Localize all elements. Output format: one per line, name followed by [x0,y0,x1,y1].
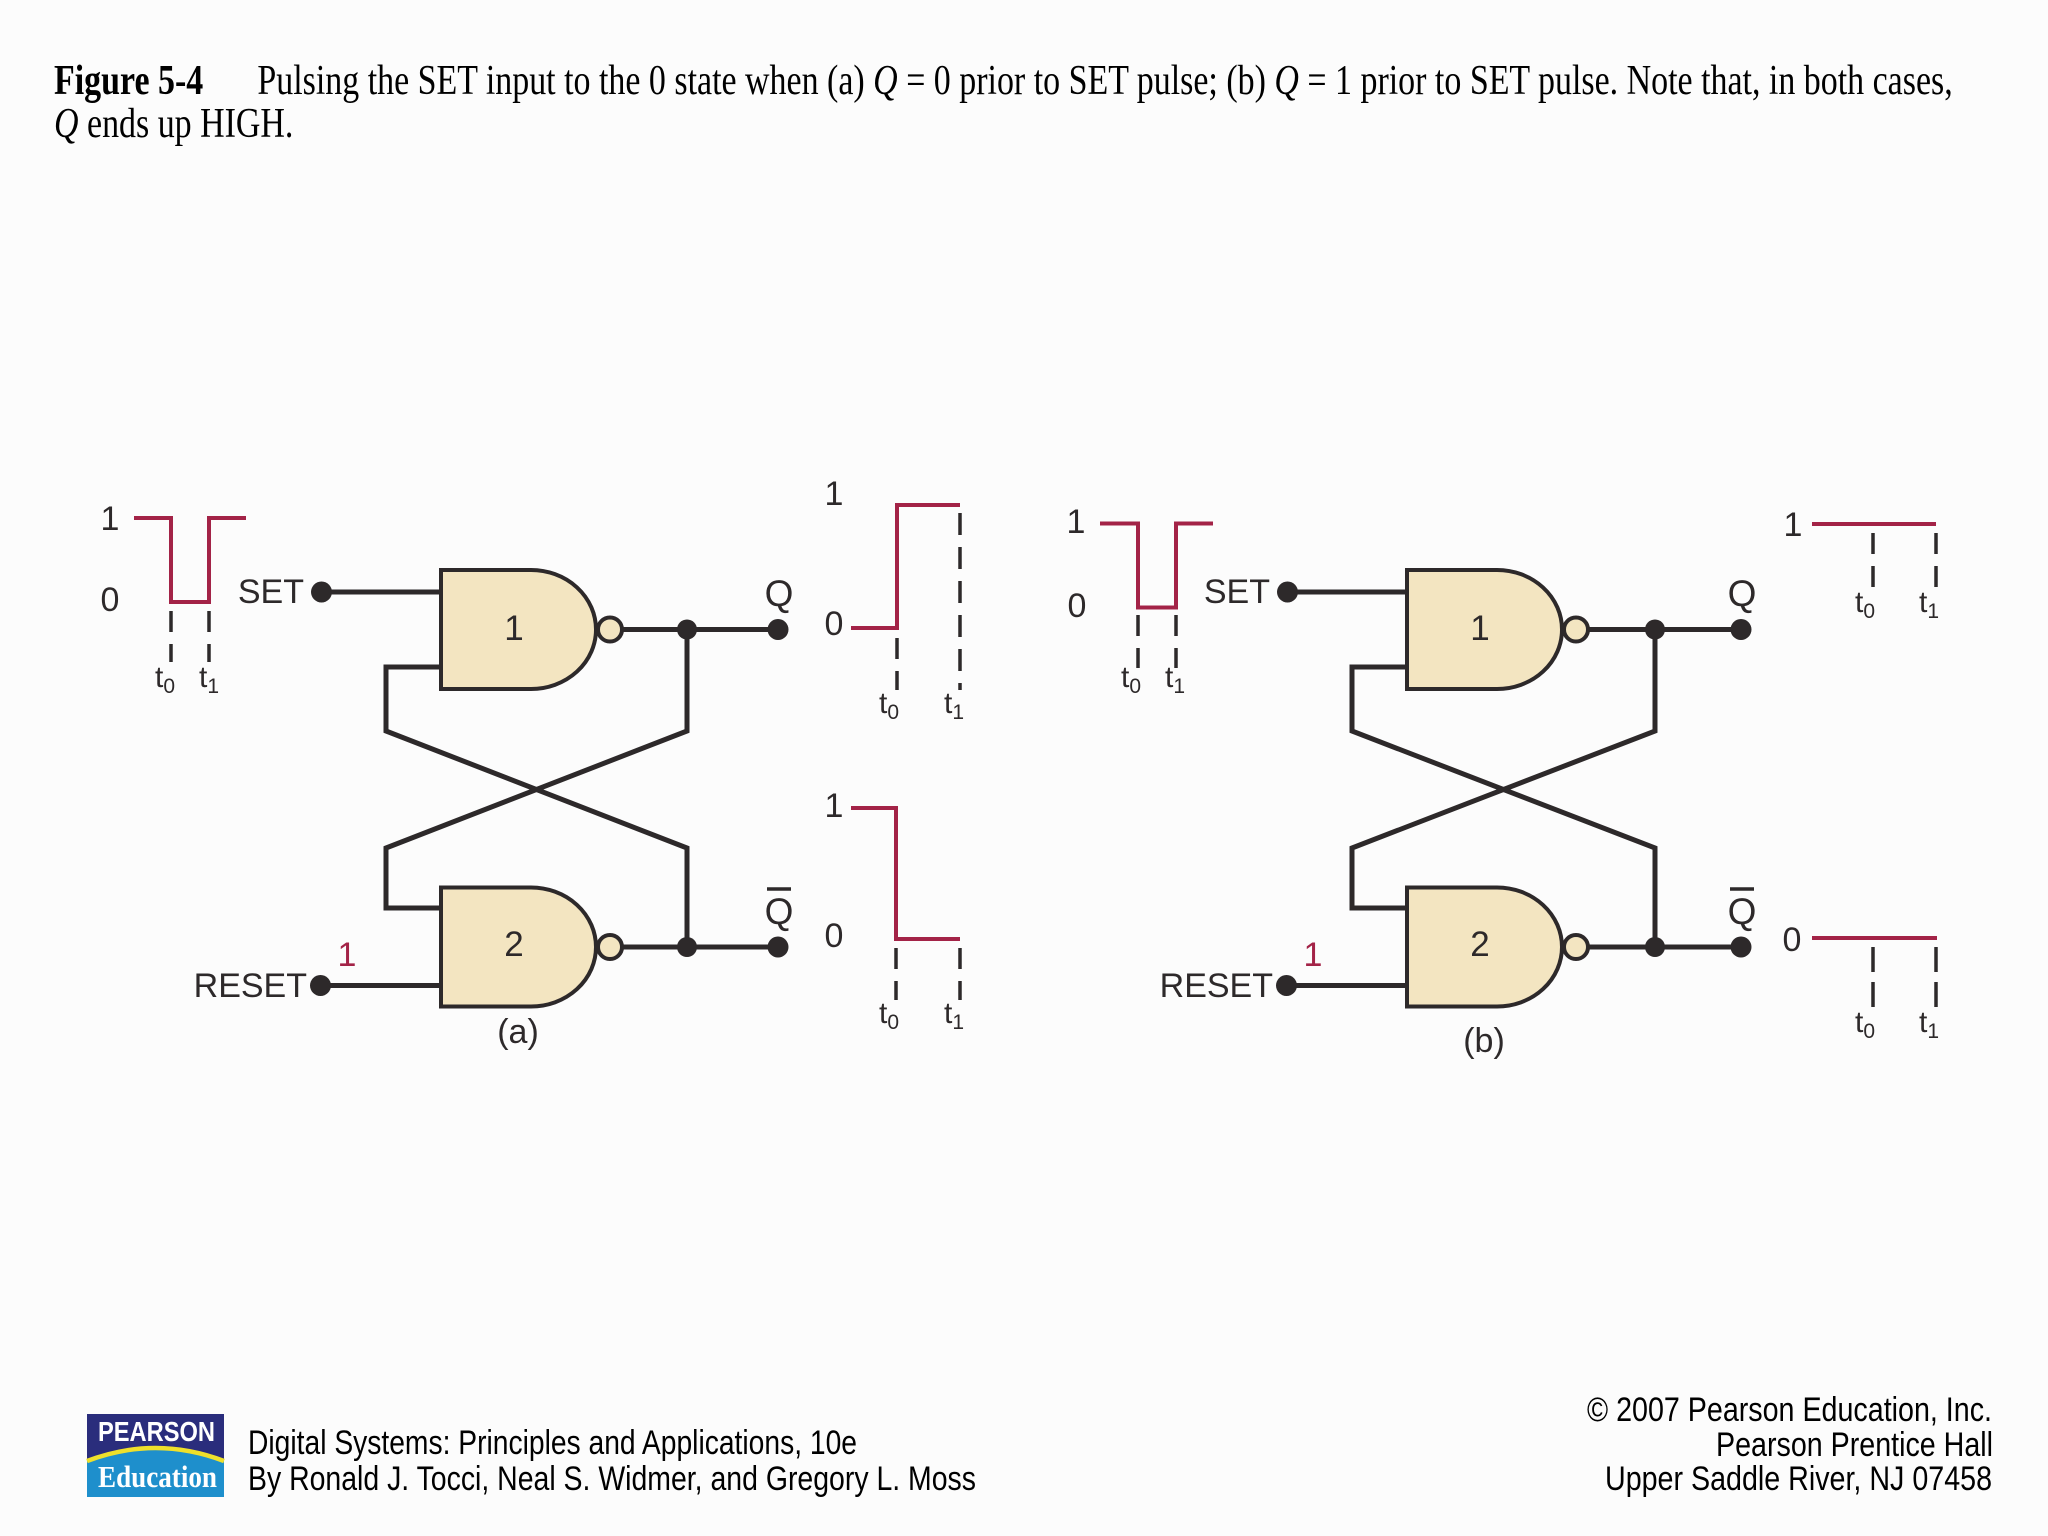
svg-text:0: 0 [1068,587,1087,625]
Qbar terminal dot (b) [1731,937,1752,958]
SET terminal (a) [238,573,441,611]
svg-text:SET: SET [238,573,304,611]
svg-text:t1: t1 [199,661,219,698]
svg-text:1: 1 [825,787,844,825]
Q terminal dot (a) [768,619,789,640]
svg-text:Q: Q [1728,573,1757,614]
svg-text:Q: Q [765,573,794,614]
svg-text:t1: t1 [944,997,964,1034]
svg-text:RESET: RESET [1160,967,1273,1005]
svg-text:2: 2 [1470,925,1489,964]
wire bubble to Qbar (b) [1588,945,1741,950]
svg-text:2: 2 [504,925,523,964]
svg-text:1: 1 [504,609,523,648]
svg-text:t0: t0 [1855,1006,1875,1043]
svg-text:PEARSON: PEARSON [98,1416,215,1447]
svg-text:(b): (b) [1463,1022,1505,1060]
cross-coupling wire from Q node to gate 2 input (b) [1352,630,1655,909]
svg-text:Upper Saddle River, NJ 07458: Upper Saddle River, NJ 07458 [1605,1460,1992,1498]
svg-text:By Ronald J. Tocci, Neal S. Wi: By Ronald J. Tocci, Neal S. Widmer, and … [248,1460,976,1498]
svg-text:1: 1 [825,475,844,513]
Q terminal dot (b) [1731,619,1752,640]
svg-text:1: 1 [1304,936,1323,974]
output bubble gate 2 (a) [598,935,622,959]
svg-text:Education: Education [98,1459,217,1494]
svg-text:Pearson Prentice Hall: Pearson Prentice Hall [1716,1426,1993,1464]
svg-text:0: 0 [825,605,844,643]
svg-text:t1: t1 [1919,586,1939,623]
svg-text:t1: t1 [1919,1006,1939,1043]
svg-text:1: 1 [1784,506,1803,544]
cross-coupling wire from gate 1 input to Qbar node (a) [386,667,687,947]
svg-text:1: 1 [1067,503,1086,541]
RESET terminal (b) [1160,936,1407,1005]
svg-text:SET: SET [1204,573,1270,611]
svg-text:Q: Q [1728,891,1757,932]
output bubble gate 1 (a) [598,618,622,642]
svg-text:RESET: RESET [194,967,307,1005]
cross-coupling wire from Q node to gate 2 input (a) [386,630,687,909]
svg-text:0: 0 [825,917,844,955]
junction node Q (b) [1645,620,1665,640]
output bubble gate 1 (b) [1564,618,1588,642]
SET terminal (b) [1204,573,1407,611]
wire bubble to Q (b) [1588,627,1741,632]
svg-text:t1: t1 [944,687,964,724]
figure caption [54,60,2048,145]
SET input waveform (a) [101,500,246,698]
svg-text:t0: t0 [1855,586,1875,623]
svg-text:1: 1 [101,500,120,538]
NAND gate 1 (b) [1407,570,1562,689]
output bubble gate 2 (b) [1564,935,1588,959]
svg-text:(a): (a) [497,1013,539,1051]
svg-text:1: 1 [1470,609,1489,648]
NAND gate 2 (a) [441,888,596,1007]
svg-text:t0: t0 [155,661,175,698]
svg-text:Q: Q [765,891,794,932]
Qbar output waveform (a) [825,787,964,1034]
wire bubble to Qbar (a) [622,945,778,950]
junction node Qbar (b) [1645,937,1665,957]
svg-text:0: 0 [1783,921,1802,959]
svg-text:1: 1 [338,936,357,974]
svg-text:Digital Systems: Principles an: Digital Systems: Principles and Applicat… [248,1424,857,1462]
cross-coupling wire from gate 1 input to Qbar node (b) [1352,667,1655,947]
Qbar terminal dot (a) [768,937,789,958]
svg-text:t0: t0 [879,997,899,1034]
SET input waveform (b) [1067,503,1213,698]
NAND gate 1 (a) [441,570,596,689]
svg-text:t0: t0 [879,687,899,724]
RESET terminal (a) [194,936,441,1005]
svg-text:© 2007 Pearson Education, Inc.: © 2007 Pearson Education, Inc. [1587,1391,1992,1429]
svg-text:0: 0 [101,581,120,619]
junction node Qbar (a) [677,937,697,957]
wire bubble to Q (a) [622,627,778,632]
NAND gate 2 (b) [1407,888,1562,1007]
Q output waveform (b) [1784,506,1939,623]
Q output waveform (a) [825,475,964,724]
Qbar output waveform (b) [1783,921,1939,1043]
junction node Q (a) [677,620,697,640]
Pearson Education logo [87,1414,224,1497]
